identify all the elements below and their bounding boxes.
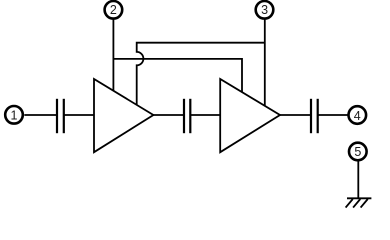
svg-text:2: 2 [110,3,117,17]
svg-text:4: 4 [354,109,361,123]
svg-text:3: 3 [261,3,268,17]
svg-text:5: 5 [354,145,361,159]
svg-text:1: 1 [11,108,18,122]
